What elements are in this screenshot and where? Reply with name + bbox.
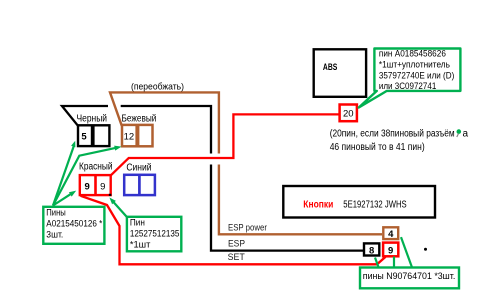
green line from pins box to pin 9	[393, 257, 395, 271]
svg-text:3шт.: 3шт.	[46, 230, 63, 241]
connector blue 2-pin housing	[124, 175, 155, 195]
connector black 2-pin housing	[78, 125, 109, 146]
svg-text:Бежевый: Бежевый	[122, 113, 157, 124]
svg-text:(переобжать): (переобжать)	[131, 82, 184, 93]
svg-text:A0215450126 *: A0215450126 *	[46, 219, 102, 230]
svg-text:Пины: Пины	[46, 208, 66, 219]
svg-text:ABS: ABS	[323, 62, 337, 73]
svg-text:(20пин, если 38пиновый разъём: (20пин, если 38пиновый разъём	[330, 129, 455, 140]
green line from pins box to pin 8	[375, 258, 380, 271]
green arrow to pin 9 left	[53, 191, 76, 206]
svg-text:Синий: Синий	[126, 163, 151, 174]
svg-text:SET: SET	[228, 252, 245, 263]
svg-text:20: 20	[343, 109, 354, 120]
wire red to ABS pin 20	[111, 114, 339, 175]
svg-text:ESP power: ESP power	[228, 222, 267, 233]
svg-text:ESP: ESP	[228, 238, 245, 249]
svg-text:12527512135: 12527512135	[130, 229, 180, 240]
pin box 9	[383, 243, 398, 257]
pin box 8	[364, 243, 379, 255]
callout green box пины N90764701	[360, 268, 459, 289]
svg-text:Черный: Черный	[77, 113, 108, 124]
wire black ESP: from black connector over top, down right side, to pin box 8	[62, 106, 108, 126]
green arrow to pin 12	[53, 146, 122, 206]
svg-text:или 3C0972741: или 3C0972741	[379, 81, 436, 92]
svg-text:9: 9	[388, 245, 393, 256]
svg-text:12: 12	[124, 132, 135, 143]
svg-text:*1шт+уплотнитель: *1шт+уплотнитель	[379, 60, 450, 71]
pin box 4	[383, 227, 398, 239]
callout green box Пин 12527512135	[127, 217, 181, 252]
svg-text:пин A0185458626: пин A0185458626	[379, 49, 446, 60]
svg-text:Пин: Пин	[130, 218, 145, 229]
svg-text:4: 4	[388, 229, 394, 240]
callout green: pin A0185458626	[359, 49, 461, 108]
svg-text:357972740E или (D): 357972740E или (D)	[379, 70, 454, 81]
svg-text:5: 5	[81, 132, 87, 143]
svg-text:Кнопки: Кнопки	[303, 200, 333, 211]
connector red 2-pin housing	[80, 175, 111, 195]
comma highlighted green	[457, 129, 462, 134]
svg-text:а: а	[463, 129, 469, 140]
green arrow to pin 5	[53, 141, 75, 206]
ABS module box	[314, 49, 366, 97]
wire red SET: from red connector down, along bottom, up to pin box 9	[81, 196, 386, 264]
junction dot at red connector corner	[109, 194, 112, 196]
dot after pin box 9	[424, 248, 427, 251]
wire brown ESP power: from beige connector top, over, down, to pin box 4	[110, 92, 219, 153]
callout green box Пины A0215450126	[43, 207, 104, 244]
green line from pins box to pin 4	[401, 237, 413, 269]
svg-text:8: 8	[369, 245, 374, 256]
connector beige 2-pin housing	[122, 125, 153, 146]
buttons box Кнопки 5E1927132 JWHS	[283, 186, 435, 218]
pin box 20	[340, 105, 357, 122]
svg-text:46 пиновый то в 41 пин): 46 пиновый то в 41 пин)	[330, 142, 425, 153]
svg-text:9: 9	[85, 181, 90, 192]
green arrow to pin 9 right	[109, 198, 127, 218]
svg-text:Красный: Красный	[79, 162, 113, 173]
svg-text:9: 9	[100, 181, 105, 192]
svg-text:*1шт: *1шт	[130, 240, 151, 251]
svg-text:5E1927132 JWHS: 5E1927132 JWHS	[343, 200, 407, 211]
svg-text:пины N90764701 *3шт.: пины N90764701 *3шт.	[363, 271, 456, 282]
